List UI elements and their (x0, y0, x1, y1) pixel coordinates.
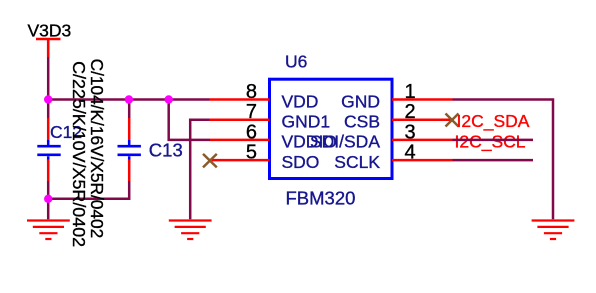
wire top horizontal rail to pin 8 (48, 98, 209, 101)
pin 1 GND wire stub (392, 98, 453, 101)
ground below C12 (27, 221, 70, 240)
junction dot at C13 top (125, 95, 133, 103)
pin 4 SCLK wire stub (392, 159, 453, 162)
wire V3D3 vertical rail (47, 57, 50, 118)
svg-text:4: 4 (405, 142, 416, 164)
junction dot at V3D3 rail / C12 (44, 95, 52, 103)
wire pin 4 SCLK net (453, 159, 534, 162)
junction dot at C12 bottom (44, 195, 52, 203)
svg-text:GND: GND (341, 91, 380, 111)
wire pin 1 to right ground (453, 100, 554, 220)
wire C13 top drop (128, 100, 131, 119)
svg-text:5: 5 (246, 142, 257, 164)
svg-text:1: 1 (405, 81, 416, 103)
svg-text:U6: U6 (285, 52, 307, 72)
svg-text:V3D3: V3D3 (28, 21, 72, 41)
ground at far right (532, 221, 575, 240)
wire C12 bottom to ground (47, 181, 50, 219)
pin 2 CSB wire stub (392, 118, 453, 121)
svg-text:C/225/K/10V/X5R/0402: C/225/K/10V/X5R/0402 (69, 61, 89, 247)
svg-text:SCLK: SCLK (334, 152, 380, 172)
pin 5 SDO wire stub (210, 159, 270, 162)
power port V3D3 bar symbol (36, 39, 61, 57)
svg-text:I2C_SDA: I2C_SDA (457, 111, 530, 132)
junction dot at pin 6 branch (165, 95, 173, 103)
svg-text:SDI/SDA: SDI/SDA (310, 132, 380, 152)
no-ERC cross on pin 2 net (446, 114, 459, 127)
wire I2C_SCL net (453, 139, 534, 142)
svg-text:8: 8 (246, 81, 257, 103)
svg-text:FBM320: FBM320 (286, 188, 356, 209)
pin 6 VDDIO wire stub (210, 139, 270, 142)
svg-text:CSB: CSB (344, 112, 380, 132)
pin 3 SDI/SDA wire stub (392, 139, 453, 142)
no-ERC cross on pin 5 (203, 154, 217, 168)
capacitor C13 (118, 118, 141, 181)
wire bottom horizontal C12 to C13 (48, 181, 129, 199)
svg-text:6: 6 (246, 121, 257, 143)
svg-text:C/104/K/16V/X5R/0402: C/104/K/16V/X5R/0402 (87, 59, 107, 239)
svg-text:2: 2 (405, 101, 416, 123)
wire branch down to pin 6 (169, 100, 210, 140)
svg-text:I2C_SCL: I2C_SCL (455, 131, 526, 152)
svg-text:SDO: SDO (282, 152, 320, 172)
svg-text:VDD: VDD (282, 91, 319, 111)
pin 7 GND1 wire stub (210, 118, 270, 121)
svg-text:C13: C13 (149, 140, 183, 161)
svg-text:3: 3 (405, 121, 416, 143)
svg-text:GND1: GND1 (282, 112, 331, 132)
svg-text:7: 7 (246, 101, 257, 123)
wire pin 7 to ground drop (190, 120, 209, 220)
capacitor C12 (37, 118, 60, 181)
pin 8 VDD wire stub (210, 98, 270, 101)
IC U6 body outline (270, 79, 393, 178)
ground below pin 7 (GND1) (169, 221, 212, 240)
